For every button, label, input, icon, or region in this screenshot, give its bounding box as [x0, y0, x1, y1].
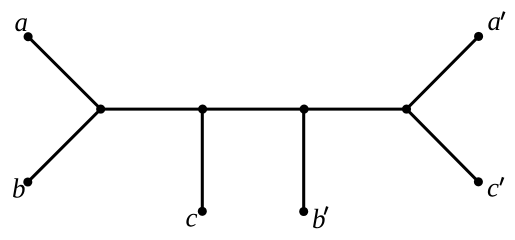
label: leaf c' prime mark — [500, 177, 505, 186]
svg-text:b: b — [312, 204, 326, 234]
node: internal vertex 4 (joins a', c', backbone) — [402, 105, 411, 114]
wire: edge internal node 4 to leaf c' — [407, 109, 479, 182]
wire: edge leaf a to internal node 1 — [28, 37, 101, 109]
label: leaf a' prime mark — [501, 11, 506, 20]
wire: backbone edge internal node 2 to internal node 3 — [203, 108, 305, 111]
wire: edge internal node 4 to leaf a' — [407, 36, 479, 109]
node: leaf vertex c — [198, 207, 207, 216]
label: leaf b' prime mark — [324, 206, 329, 215]
svg-text:c: c — [186, 203, 198, 233]
svg-text:b: b — [12, 174, 26, 204]
node: leaf vertex b' — [299, 207, 308, 216]
node: internal vertex 2 (joins c, backbone) — [198, 105, 207, 114]
node: leaf vertex b — [23, 177, 32, 186]
node: leaf vertex c' — [474, 177, 483, 186]
wire: backbone edge internal node 3 to internal node 4 — [304, 108, 406, 111]
wire: edge internal node 2 to leaf c — [201, 109, 204, 211]
wire: edge leaf b to internal node 1 — [28, 109, 101, 182]
node: internal vertex 1 (joins a, b, backbone) — [96, 105, 105, 114]
wire: edge internal node 3 to leaf b' — [302, 109, 305, 211]
svg-text:a: a — [15, 7, 29, 37]
svg-text:a: a — [488, 6, 502, 36]
wire: backbone edge internal node 1 to internal node 2 — [101, 108, 203, 111]
svg-text:c: c — [487, 173, 499, 203]
node: internal vertex 3 (joins b', backbone) — [300, 105, 309, 114]
node: leaf vertex a — [24, 32, 33, 41]
node: leaf vertex a' — [474, 32, 483, 41]
